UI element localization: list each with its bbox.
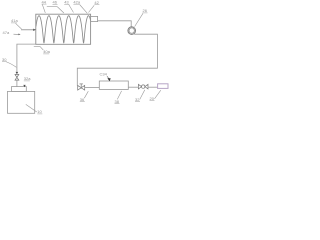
- svg-text:20: 20: [150, 96, 155, 101]
- label 44: [42, 0, 47, 13]
- svg-text:36: 36: [80, 97, 85, 102]
- valve V32a: [15, 75, 19, 81]
- svg-text:C34: C34: [100, 71, 108, 76]
- svg-text:42: 42: [94, 0, 99, 5]
- lid arrow: [23, 85, 25, 87]
- inlet arrow 47a: [21, 29, 36, 31]
- svg-text:32a: 32a: [24, 76, 31, 81]
- svg-text:32: 32: [135, 97, 140, 102]
- svg-text:40a: 40a: [43, 49, 50, 54]
- evaporator housing box: [36, 14, 91, 44]
- svg-text:38: 38: [115, 99, 120, 104]
- label 43: [64, 0, 73, 12]
- wire valve to unit 20: [148, 86, 158, 88]
- label 32a: [24, 76, 31, 81]
- heater 38: [99, 81, 128, 89]
- label 30: [2, 57, 16, 67]
- label 42: [89, 0, 100, 13]
- outlet port box: [91, 16, 98, 21]
- svg-text:43: 43: [64, 0, 69, 5]
- label 26: [135, 8, 148, 26]
- label 32: [135, 90, 145, 102]
- wire: pump to right drop: [77, 34, 157, 85]
- unit 20 box: [158, 84, 168, 89]
- wire: port to pump: [98, 21, 132, 27]
- label 36: [80, 91, 89, 102]
- svg-text:46: 46: [53, 0, 58, 5]
- label 38: [115, 91, 122, 104]
- label 41a: [11, 18, 22, 29]
- svg-text:41a: 41a: [11, 18, 18, 23]
- wire heater to valve 32: [128, 86, 138, 88]
- control valve V32: [138, 84, 148, 89]
- wire valve to tank: [16, 80, 18, 87]
- svg-text:26: 26: [143, 8, 148, 13]
- svg-text:10: 10: [37, 109, 42, 114]
- label 47a: [3, 30, 21, 35]
- tank lid: [12, 87, 27, 92]
- label 42a: [73, 0, 87, 13]
- wire valve to heater: [85, 86, 100, 88]
- label 20: [150, 90, 161, 101]
- pump U26: [128, 27, 136, 35]
- valve V36: [78, 84, 85, 90]
- label 10: [26, 104, 43, 114]
- svg-text:42a: 42a: [73, 0, 80, 5]
- label 40a: [34, 46, 51, 54]
- drain wire: box to tank valve: [17, 44, 36, 72]
- svg-text:47a: 47a: [3, 30, 10, 35]
- tank 10: [8, 91, 35, 113]
- label C34: [100, 71, 111, 81]
- svg-text:30: 30: [2, 57, 7, 62]
- heating coil 42: [36, 16, 91, 43]
- label 45: [47, 0, 64, 13]
- flow arrow: [16, 72, 19, 74]
- svg-text:44: 44: [42, 0, 47, 4]
